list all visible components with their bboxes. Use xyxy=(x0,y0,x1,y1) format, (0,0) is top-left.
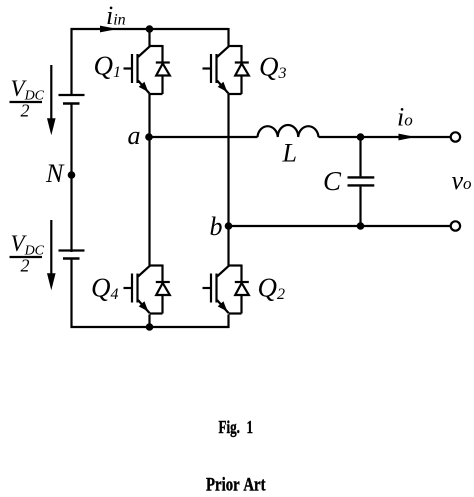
current arrow i_in xyxy=(100,26,118,33)
fraction bar (lower Vdc/2) xyxy=(10,256,43,258)
IGBT Q1 xyxy=(124,45,163,94)
diode D2 (antiparallel with Q2) xyxy=(235,282,249,295)
Q2 gate bar xyxy=(210,274,212,303)
wire: inductor to output terminal xyxy=(319,136,451,138)
wire: Q2 cell top xyxy=(229,264,242,266)
wire: bottom return bus xyxy=(71,326,230,328)
wire: Q2 emitter stub xyxy=(227,315,229,329)
label Vdc/2 (upper) xyxy=(10,76,45,121)
wire: Q4 cell top xyxy=(150,264,163,266)
Q1 collector lead xyxy=(138,46,150,57)
wire: Q1 freewheel branch xyxy=(161,45,163,94)
inductor L xyxy=(258,125,319,137)
Q4 gate bar xyxy=(131,274,133,303)
IGBT Q3 xyxy=(203,45,242,94)
capacitor C upper plate xyxy=(348,176,375,178)
Q3 emitter arrow xyxy=(218,82,228,92)
Q4 emitter lead xyxy=(138,300,150,313)
Q4 body bar xyxy=(136,274,138,303)
wire: left rail middle segment xyxy=(70,104,72,253)
Q3 emitter lead xyxy=(217,81,229,94)
diode D2 anode triangle xyxy=(235,283,249,295)
wire: Q4 freewheel branch xyxy=(161,265,163,314)
capacitor C top lead xyxy=(359,137,361,176)
Q3 body bar xyxy=(215,54,217,83)
svg-text:Prior Art: Prior Art xyxy=(206,475,266,496)
battery B2 positive plate xyxy=(59,249,85,251)
node b junction dot xyxy=(225,222,233,230)
Q3 collector lead xyxy=(217,46,229,57)
wire: Q1 cell bottom xyxy=(150,93,163,95)
diode D1 cathode bar xyxy=(156,61,170,63)
svg-text:N: N xyxy=(45,159,65,188)
svg-text:2: 2 xyxy=(21,256,30,276)
wire: Q4 cell bottom xyxy=(150,312,163,314)
Q2 body bar xyxy=(215,274,217,303)
svg-text:b: b xyxy=(210,212,223,241)
svg-text:2: 2 xyxy=(21,101,30,121)
wire: Q1 collector stub xyxy=(148,28,150,46)
svg-text:L: L xyxy=(282,139,297,168)
battery B1 positive plate xyxy=(59,94,85,96)
Q4 gate lead xyxy=(124,287,132,289)
node N junction dot xyxy=(68,171,76,179)
capacitor C lower plate xyxy=(348,184,375,186)
wire: Q3 collector stub xyxy=(227,28,229,46)
junction dot: top bus / left leg xyxy=(146,25,154,33)
capacitor C bottom lead xyxy=(359,187,361,226)
Q4 emitter arrow xyxy=(139,301,149,311)
fraction bar (upper Vdc/2) xyxy=(10,101,43,103)
Q1 gate lead xyxy=(124,67,132,69)
capacitor C plates xyxy=(348,177,375,185)
junction dot: filter bottom node xyxy=(357,222,365,230)
wire: left rail upper segment xyxy=(70,28,72,96)
battery B2 (lower Vdc/2 source) xyxy=(59,251,85,259)
wire: node a to inductor xyxy=(150,136,258,138)
svg-text:Fig. 1: Fig. 1 xyxy=(219,417,254,437)
svg-text:C: C xyxy=(323,166,342,196)
IGBT Q2 xyxy=(203,265,242,314)
IGBT Q4 xyxy=(124,265,163,314)
wire: left leg midpoint (node a) xyxy=(148,94,150,266)
output terminal (bottom) xyxy=(451,221,460,230)
junction dot: bottom bus / left leg xyxy=(146,323,154,331)
battery B1 negative plate xyxy=(63,102,80,105)
svg-text:a: a xyxy=(128,121,141,150)
wire: left rail lower segment xyxy=(70,259,72,329)
wire: right leg midpoint (node b) xyxy=(227,94,229,266)
Q2 gate lead xyxy=(203,287,211,289)
wire: Q3 freewheel branch xyxy=(240,45,242,94)
wire: Q1 cell top xyxy=(150,45,163,47)
voltage polarity arrow (lower) xyxy=(47,220,56,290)
battery B1 (upper Vdc/2 source) xyxy=(59,95,85,104)
junction dot: filter top node xyxy=(357,133,365,141)
wire: node b to output terminal xyxy=(229,225,451,227)
diode D3 (antiparallel with Q3) xyxy=(235,63,249,76)
diode D3 anode triangle xyxy=(235,64,249,76)
Q2 emitter arrow xyxy=(218,301,228,311)
battery B2 negative plate xyxy=(63,257,80,260)
diode D4 (antiparallel with Q4) xyxy=(156,282,170,295)
wire: top DC bus xyxy=(71,28,229,30)
diode D4 cathode bar xyxy=(156,281,170,283)
diode D2 cathode bar xyxy=(235,281,249,283)
wire: Q3 cell bottom xyxy=(229,93,242,95)
Q1 body bar xyxy=(136,54,138,83)
current arrow i_o xyxy=(399,134,416,141)
wire: Q4 emitter stub xyxy=(148,315,150,329)
Q3 gate lead xyxy=(203,67,211,69)
wire: Q3 cell top xyxy=(229,45,242,47)
diode D1 anode triangle xyxy=(156,64,170,76)
voltage polarity arrow (upper) xyxy=(47,65,56,135)
diode D4 anode triangle xyxy=(156,283,170,295)
wire: Q2 freewheel branch xyxy=(240,265,242,314)
Q1 gate bar xyxy=(131,54,133,83)
Q3 gate bar xyxy=(210,54,212,83)
Q2 emitter lead xyxy=(217,300,229,313)
output terminal (top) xyxy=(451,132,460,141)
node a junction dot xyxy=(145,133,153,141)
Q1 emitter arrow xyxy=(139,82,149,92)
label Vdc/2 (lower) xyxy=(10,231,45,276)
Q2 collector lead xyxy=(217,266,229,277)
wire: Q2 cell bottom xyxy=(229,312,242,314)
diode D3 cathode bar xyxy=(235,61,249,63)
Q1 emitter lead xyxy=(138,81,150,94)
Q4 collector lead xyxy=(138,266,150,277)
diode D1 (antiparallel with Q1) xyxy=(156,63,170,76)
